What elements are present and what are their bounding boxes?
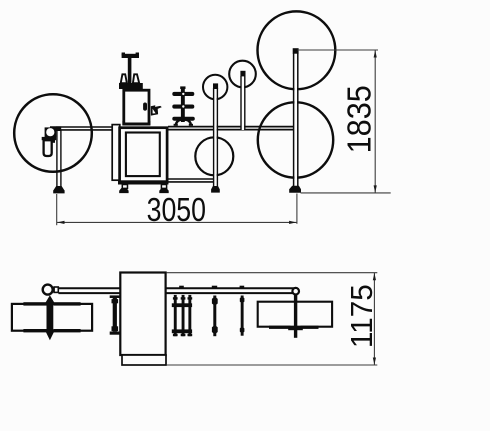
table right segment (double line) [168,127,294,130]
left bracket roller top bar [110,295,121,298]
right roll flange segments bottom [269,326,291,329]
roller bar 3 [172,117,195,121]
bottom view cabinet bottom strip [122,355,166,365]
lower shelf between cabinet and post [167,179,214,182]
left leg (double line) [57,128,61,187]
beam bump 1 [179,286,184,289]
cabinet foot right [159,188,168,193]
dimension 1835 extension line bottom [301,192,391,194]
left bracket roller knobs [112,299,119,303]
left bracket roller shaft [113,298,117,331]
roll bracket flange [42,137,56,140]
roller bar 2 [172,105,194,109]
left leg foot [53,186,64,193]
post 1 foot [211,186,220,193]
roller stack arch base [176,120,191,126]
cabinet side panel [112,125,120,181]
roller stack post cap [180,86,185,89]
left roll shaft double arrow [45,295,55,340]
ladder top caps [173,297,178,299]
right roll shaft tick [288,327,303,331]
dimension 1175 arrow top [373,273,376,280]
guide circle small 1 [203,75,227,99]
ladder crossbar bottom [172,329,192,333]
cabinet door [126,133,160,177]
dimension 3050 arrow right [289,221,296,224]
post 1 white core [214,88,217,187]
clamp base bar [119,83,143,89]
roller stack post [181,88,185,122]
dimension 3050 extension line left [56,194,58,225]
big roll circle bottom [258,102,333,177]
big post cap [293,48,299,54]
post 2 (double line) [241,76,245,130]
big post white core [294,53,297,186]
left bracket roller bottom bar [110,332,121,335]
T-handle stem [128,57,132,84]
beam bump 2 [212,286,217,289]
right roll shaft [294,295,297,338]
press box bottom bar [122,121,150,126]
beam bump 3 [240,286,245,289]
dimension 1175 extension line bottom [166,364,377,366]
ladder roller unit bars [172,295,192,336]
big post foot [289,186,301,193]
post 2 white core [241,76,244,130]
T-handle bar [122,54,139,58]
dimension 1835 extension line top [297,49,378,51]
beam end circle [292,288,299,295]
guide circle small 2 [229,61,256,88]
right roll rectangle [258,302,332,327]
cabinet legs [122,185,127,189]
big roll circle top [258,11,336,89]
dimension 1175 line [373,273,375,365]
table left segment (double line) [50,127,112,130]
conveyor beam (double line) [58,288,294,293]
left roll flange segments top [23,302,46,305]
dimension 1835 arrow bottom [374,185,377,192]
cabinet bottom rail [118,180,168,184]
leg-table corner joint [56,126,61,131]
cabinet frame [120,128,168,183]
dimension 1835 line [374,50,376,193]
dimension 3050 extension line right [296,194,298,224]
svg-text:1175: 1175 [344,284,379,348]
post 2 cap [240,71,245,77]
hanging cylinder [44,140,52,156]
press box [124,90,149,124]
dimension 1175 arrow bottom [373,358,376,365]
roll bracket bearing block [45,127,57,137]
roller bar 1 [172,92,194,96]
dimension 3050 line [57,221,297,223]
latch handle on box [143,103,147,111]
dimension 3050 arrow left [57,221,64,224]
crank circle [43,285,53,295]
ladder bottom caps [173,334,178,336]
cylinder side nub [52,139,55,143]
clamp trapezoid left [121,74,127,83]
svg-text:3050: 3050 [147,192,206,228]
post 1 cap [213,83,218,89]
left roll rectangle [12,304,92,331]
crank square [54,287,58,292]
lower guide circle below table [195,137,233,175]
left roll flange segments bottom [23,329,46,332]
svg-text:1835: 1835 [341,85,378,153]
dimension 1835 arrow top [374,50,377,57]
latch flag [151,105,162,115]
big post (double line) [294,53,298,187]
cabinet foot left [119,188,128,193]
dimension 1175 extension line top [166,272,377,274]
bottom view cabinet [120,273,165,356]
clamp trapezoid right [133,74,139,83]
left material roll circle [14,94,92,172]
post 1 (double line) [214,88,218,187]
dumbbell roller 1 [213,296,216,337]
ladder crossbar top [172,303,192,307]
dumbbell roller 2 [241,296,244,336]
